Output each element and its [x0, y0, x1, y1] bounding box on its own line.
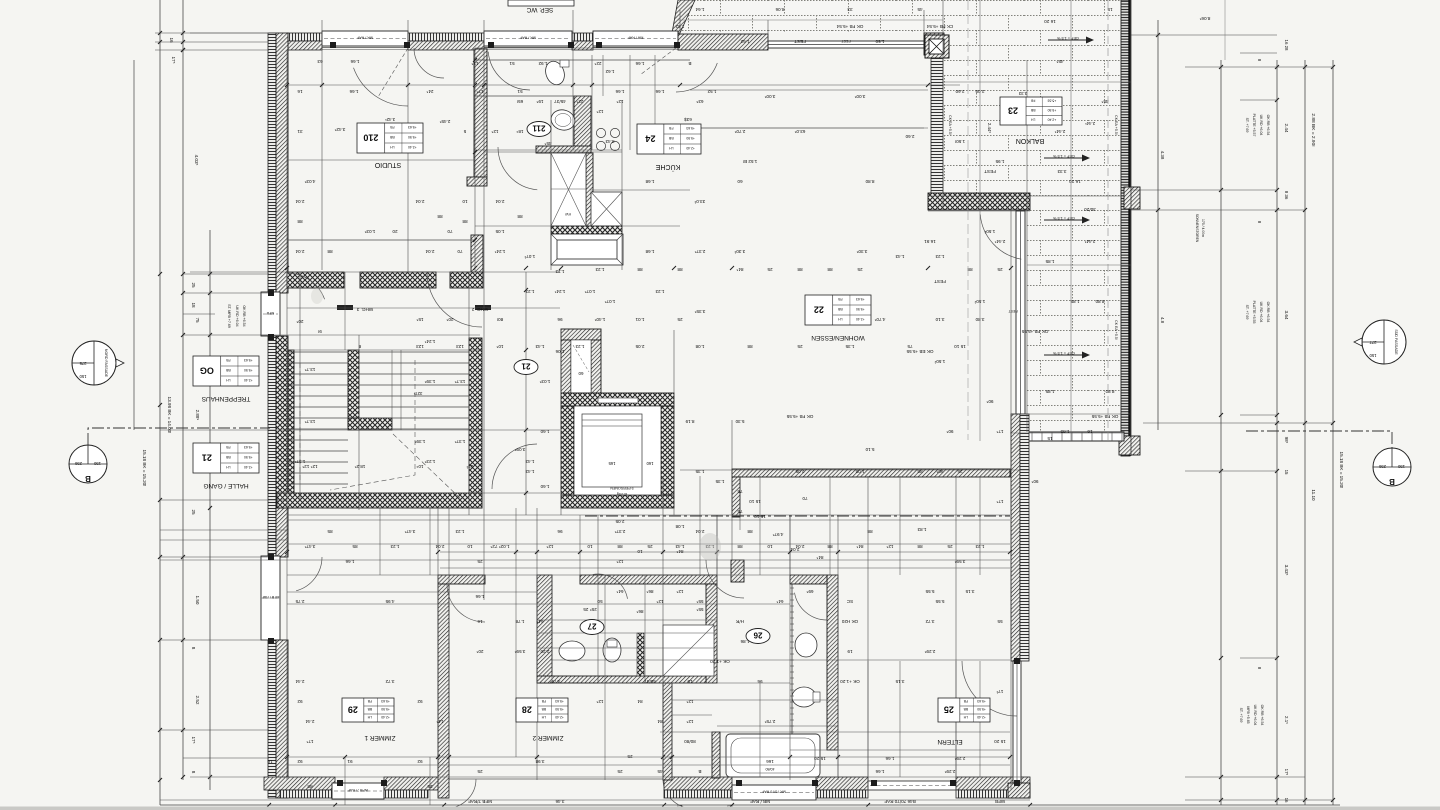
- svg-text:25: 25: [997, 267, 1003, 272]
- svg-text:NORD FASSADE: NORD FASSADE: [104, 349, 108, 378]
- svg-text:2.75⁵: 2.75⁵: [764, 719, 775, 724]
- svg-text:3.47⁵: 3.47⁵: [404, 529, 415, 534]
- svg-text:2.44: 2.44: [1284, 124, 1289, 133]
- balcony slope arrows: [1048, 36, 1094, 44]
- right wall bottom corner: [1008, 783, 1030, 798]
- svg-text:PLATTE +5.55: PLATTE +5.55: [1252, 301, 1256, 324]
- svg-text:150: 150: [1397, 464, 1405, 469]
- svg-text:4.97⁵: 4.97⁵: [772, 532, 783, 537]
- stair spine foot: [348, 418, 392, 430]
- svg-text:1.23: 1.23: [525, 289, 534, 294]
- svg-text:92: 92: [297, 699, 303, 704]
- svg-text:MFB 7/RAF: MFB 7/RAF: [468, 799, 492, 804]
- svg-text:CK EA +5.5!: CK EA +5.5!: [1114, 115, 1118, 135]
- svg-text:3.64: 3.64: [1284, 311, 1289, 320]
- svg-text:2.04: 2.04: [295, 249, 304, 254]
- svg-text:1.85: 1.85: [1045, 389, 1054, 394]
- svg-text:1.23: 1.23: [575, 344, 584, 349]
- svg-text:84⁵: 84⁵: [856, 544, 863, 549]
- kitchen stove: [596, 128, 619, 150]
- chain ticks x475: [473, 58, 477, 62]
- svg-text:1.24⁵: 1.24⁵: [424, 339, 435, 344]
- balcony glazing (FEST) top, living room: [768, 41, 924, 48]
- svg-text:84⁵: 84⁵: [736, 267, 743, 272]
- svg-text:86⁵: 86⁵: [646, 589, 653, 594]
- whg3 hall door arc: [287, 273, 325, 299]
- window left W1: [261, 292, 280, 336]
- svg-text:OG: OG: [200, 366, 214, 376]
- right dim line A: [1157, 20, 1159, 430]
- pier at balcony wall: [924, 33, 944, 55]
- svg-text:17⁵: 17⁵: [476, 89, 483, 94]
- svg-text:60: 60: [737, 179, 743, 184]
- eltern stub: [731, 560, 744, 582]
- right dim line E: [1332, 60, 1334, 805]
- svg-text:88: 88: [917, 544, 923, 549]
- window left W2: [261, 556, 280, 640]
- svg-text:1.50²: 1.50²: [984, 229, 995, 234]
- kitchen island: [591, 192, 622, 226]
- svg-text:3.33: 3.33: [1057, 169, 1066, 174]
- svg-text:ST. MFB +7.69: ST. MFB +7.69: [227, 304, 231, 328]
- svg-text:92: 92: [297, 759, 303, 764]
- svg-text:+5.63: +5.63: [1048, 99, 1057, 103]
- svg-text:BB: BB: [837, 307, 842, 311]
- svg-text:3.47⁵: 3.47⁵: [304, 544, 315, 549]
- svg-text:85: 85: [352, 544, 358, 549]
- svg-text:17³: 17³: [996, 689, 1003, 694]
- room table 23 BALKON: [1000, 97, 1062, 125]
- svg-text:80/80: 80/80: [684, 739, 696, 744]
- room table 210 STUDIO: [357, 123, 423, 153]
- svg-text:91: 91: [347, 759, 353, 764]
- svg-text:1.66: 1.66: [655, 89, 664, 94]
- section circle B left: [69, 445, 107, 483]
- eltern door arc: [706, 560, 744, 598]
- svg-text:16: 16: [1087, 429, 1093, 434]
- svg-text:15 10: 15 10: [754, 514, 766, 519]
- svg-text:2.20: 2.20: [540, 649, 549, 654]
- svg-text:25: 25: [857, 267, 863, 272]
- svg-text:1.60: 1.60: [540, 484, 549, 489]
- svg-text:25: 25: [797, 344, 803, 349]
- svg-text:327⁵: 327⁵: [413, 391, 422, 396]
- svg-text:84: 84: [657, 719, 663, 724]
- svg-text:OK H20: OK H20: [841, 619, 858, 624]
- svg-text:FB: FB: [225, 445, 230, 449]
- kitchen door arc from hall: [676, 63, 717, 92]
- svg-text:12³: 12³: [466, 464, 473, 469]
- svg-text:4.70⁵: 4.70⁵: [874, 317, 885, 322]
- zimmer1 entry arc: [447, 584, 485, 622]
- sepwc toilet: [542, 59, 567, 88]
- wall between zimmer2 and eltern: [663, 683, 672, 780]
- svg-text:1.43: 1.43: [895, 254, 904, 259]
- eltern balcony door arc: [962, 661, 1017, 716]
- svg-text:2.04: 2.04: [425, 249, 434, 254]
- oval badge 21: [514, 360, 538, 375]
- stair dashed walk line: [300, 360, 415, 490]
- oval badge 211: [527, 122, 551, 137]
- svg-text:12⁵: 12⁵: [886, 544, 893, 549]
- svg-text:1.50: 1.50: [195, 596, 200, 605]
- svg-text:1.85: 1.85: [1045, 259, 1054, 264]
- svg-text:1.66: 1.66: [875, 769, 884, 774]
- svg-text:BB: BB: [225, 368, 230, 372]
- svg-text:8.06: 8.06: [775, 7, 784, 12]
- svg-text:2.44⁵: 2.44⁵: [987, 123, 992, 134]
- window end marks: [330, 42, 336, 48]
- svg-text:1.39⁵: 1.39⁵: [414, 439, 425, 444]
- bath1 shower: [663, 625, 714, 676]
- svg-text:1.68: 1.68: [645, 249, 654, 254]
- balcony railing right: [1121, 0, 1130, 456]
- svg-text:150: 150: [1369, 353, 1377, 358]
- svg-text:1.03⁵: 1.03⁵: [364, 229, 375, 234]
- svg-text:OK FB +5.55: OK FB +5.55: [1091, 414, 1118, 419]
- svg-text:GEF = 1.5 %: GEF = 1.5 %: [1052, 351, 1074, 355]
- svg-text:275: 275: [79, 361, 87, 366]
- svg-text:75: 75: [737, 509, 743, 514]
- svg-text:277: 277: [1369, 340, 1377, 345]
- zimmer1 door arc: [296, 557, 322, 591]
- svg-text:5.55: 5.55: [925, 589, 934, 594]
- balcony extension lines: [979, 0, 981, 441]
- svg-text:1.66: 1.66: [345, 559, 354, 564]
- svg-text:2.29⁵: 2.29⁵: [954, 756, 965, 761]
- svg-text:88: 88: [307, 784, 313, 789]
- svg-text:2.29⁵: 2.29⁵: [924, 649, 935, 654]
- svg-text:2.75: 2.75: [295, 599, 304, 604]
- svg-text:MFB: MFB: [266, 311, 274, 315]
- svg-text:LH: LH: [1031, 117, 1036, 121]
- bath2 tiled wall line: [791, 584, 793, 750]
- section axis dash-dot left: [88, 428, 270, 445]
- bottom exterior wall seg 1: [264, 777, 335, 790]
- svg-text:88: 88: [867, 529, 873, 534]
- svg-text:1.08: 1.08: [695, 344, 704, 349]
- svg-text:16 20: 16 20: [1069, 179, 1081, 184]
- bath2 door arc: [795, 593, 828, 620]
- svg-text:1.08: 1.08: [675, 524, 684, 529]
- svg-text:15 10: 15 10: [954, 344, 966, 349]
- svg-text:25: 25: [627, 754, 633, 759]
- svg-text:17⁵: 17⁵: [171, 56, 176, 63]
- svg-text:1.23: 1.23: [975, 544, 984, 549]
- svg-text:17⁵: 17⁵: [191, 736, 196, 743]
- svg-text:3.59⁵: 3.59⁵: [954, 559, 965, 564]
- svg-text:25⁵ 25: 25⁵ 25: [583, 607, 597, 612]
- svg-text:SC: SC: [846, 599, 853, 604]
- svg-text:OK FB +5.54: OK FB +5.54: [836, 24, 863, 29]
- svg-text:+5.50: +5.50: [408, 135, 417, 139]
- svg-text:19: 19: [687, 679, 693, 684]
- svg-text:3.59⁵: 3.59⁵: [514, 649, 525, 654]
- svg-text:SONNENSTOREN: SONNENSTOREN: [1195, 214, 1199, 243]
- svg-text:88: 88: [462, 219, 468, 224]
- window sill lines top wall: [322, 46, 408, 48]
- svg-text:13.7⁵: 13.7⁵: [304, 419, 315, 424]
- svg-text:3.30³: 3.30³: [734, 249, 745, 254]
- svg-text:GEF = 1.5 %: GEF = 1.5 %: [1052, 216, 1074, 220]
- svg-text:75: 75: [907, 344, 913, 349]
- svg-text:96: 96: [557, 317, 563, 322]
- svg-text:5.10: 5.10: [865, 447, 874, 452]
- kitchen wall cap: [536, 146, 591, 153]
- svg-text:88: 88: [737, 544, 743, 549]
- svg-text:5.55: 5.55: [935, 599, 944, 604]
- svg-text:B46 70/70 RAF: B46 70/70 RAF: [884, 799, 916, 804]
- hall 21 door arc: [492, 444, 537, 489]
- svg-text:90⁵: 90⁵: [936, 469, 943, 474]
- svg-text:+5.50: +5.50: [1048, 108, 1057, 112]
- svg-text:MFB +5.65: MFB +5.65: [1246, 706, 1250, 723]
- svg-text:1.01: 1.01: [635, 317, 644, 322]
- svg-text:4.79⁵: 4.79⁵: [549, 679, 560, 684]
- svg-text:5.30: 5.30: [735, 419, 744, 424]
- svg-text:FB: FB: [541, 699, 546, 703]
- svg-text:GEF = 1.5 %: GEF = 1.5 %: [1056, 36, 1078, 40]
- balcony left glazing strip: [931, 58, 943, 196]
- svg-text:+2.40: +2.40: [856, 317, 865, 321]
- top-left dim lines: [155, 32, 269, 34]
- svg-text:3.42⁵: 3.42⁵: [385, 117, 395, 122]
- svg-text:11.10: 11.10: [1311, 489, 1316, 501]
- svg-text:22⁵: 22⁵: [576, 99, 583, 104]
- svg-text:1.43: 1.43: [675, 544, 684, 549]
- svg-text:2.05: 2.05: [635, 344, 644, 349]
- svg-text:20: 20: [392, 229, 398, 234]
- svg-text:88: 88: [617, 544, 623, 549]
- svg-text:2.52: 2.52: [195, 696, 200, 705]
- svg-text:CK EA +5.5!: CK EA +5.5!: [948, 115, 952, 135]
- window top W3: [593, 31, 678, 46]
- svg-text:LH: LH: [226, 465, 231, 469]
- bath1 toilet: [603, 638, 621, 662]
- svg-text:OK RB +6.54: OK RB +6.54: [1266, 302, 1270, 323]
- svg-text:80!: 80!: [497, 317, 503, 322]
- svg-text:+2.40: +2.40: [977, 715, 986, 719]
- svg-text:21: 21: [202, 453, 212, 463]
- svg-text:18.2⁵: 18.2⁵: [354, 464, 365, 469]
- svg-text:8: 8: [358, 344, 361, 349]
- svg-text:2.04: 2.04: [495, 199, 504, 204]
- svg-text:+5.50: +5.50: [244, 455, 253, 459]
- bath2 top wall: [790, 575, 827, 584]
- svg-text:+2.40: +2.40: [686, 146, 695, 150]
- left exterior wall seg 1 insulation: [268, 33, 276, 293]
- svg-text:+2.40: +2.40: [381, 715, 390, 719]
- svg-text:15: 15: [1284, 470, 1289, 475]
- svg-text:3.09⁵: 3.09⁵: [514, 447, 525, 452]
- svg-text:51: 51: [509, 61, 515, 66]
- svg-text:1.24⁵: 1.24⁵: [554, 289, 565, 294]
- svg-text:16: 16: [297, 89, 303, 94]
- svg-text:1.23: 1.23: [595, 267, 604, 272]
- WHG divider crosshatch band seg2: [360, 272, 436, 288]
- left exterior wall seg 1: [276, 33, 288, 293]
- svg-text:90⁵: 90⁵: [986, 399, 993, 404]
- svg-text:25: 25: [647, 544, 653, 549]
- svg-text:2.88 BK = 2.90!: 2.88 BK = 2.90!: [1310, 113, 1316, 146]
- svg-text:1.62: 1.62: [605, 69, 614, 74]
- svg-text:+5.63: +5.63: [977, 699, 986, 703]
- bottom exterior wall seg 3: [664, 777, 732, 790]
- svg-text:STUDIO: STUDIO: [374, 161, 401, 168]
- svg-text:9!: 9!: [318, 329, 322, 334]
- svg-text:16: 16: [1284, 798, 1289, 803]
- svg-text:2.04: 2.04: [435, 544, 444, 549]
- top exterior wall seg 1: [269, 33, 322, 41]
- svg-text:30/20: 30/20: [1084, 207, 1096, 212]
- svg-text:17⁵: 17⁵: [306, 739, 313, 744]
- svg-text:25: 25: [944, 705, 954, 715]
- svg-text:5: 5: [463, 129, 466, 134]
- stair bottom crosshatch wall: [277, 493, 482, 508]
- svg-text:1.66: 1.66: [475, 594, 484, 599]
- svg-text:25: 25: [191, 282, 196, 288]
- svg-text:3.15: 3.15: [895, 679, 904, 684]
- svg-text:10: 10: [767, 544, 773, 549]
- svg-text:LH: LH: [838, 317, 843, 321]
- svg-text:8.80: 8.80: [865, 179, 874, 184]
- svg-text:1.83: 1.83: [917, 527, 926, 532]
- svg-text:+5.63: +5.63: [408, 125, 417, 129]
- svg-text:WHG. 2: WHG. 2: [471, 307, 488, 312]
- svg-text:10: 10: [587, 544, 593, 549]
- bottom exterior wall seg 2: [384, 777, 444, 790]
- svg-text:22: 22: [814, 305, 824, 315]
- stair spine wall: [348, 350, 359, 426]
- svg-text:1.92: 1.92: [538, 61, 547, 66]
- svg-text:8.80: 8.80: [1095, 299, 1104, 304]
- svg-text:45: 45: [657, 769, 663, 774]
- svg-text:16: 16: [477, 619, 483, 624]
- svg-text:1.39⁵: 1.39⁵: [424, 379, 435, 384]
- svg-text:8: 8: [191, 771, 196, 774]
- svg-text:B: B: [688, 61, 691, 66]
- svg-text:88: 88: [827, 267, 833, 272]
- bath2 right wall: [827, 575, 838, 750]
- svg-text:PLATTE +5.57: PLATTE +5.57: [1252, 114, 1256, 137]
- svg-text:MFB / RAF: MFB / RAF: [261, 595, 280, 599]
- WHG2 door leaf: [475, 305, 491, 310]
- svg-text:175 / 4.00m: 175 / 4.00m: [1201, 219, 1205, 237]
- svg-text:LH: LH: [669, 146, 674, 150]
- bath1 top wall: [580, 575, 717, 584]
- left axis line: [133, 60, 135, 430]
- balcony railing post mid: [1124, 187, 1140, 209]
- svg-text:25: 25: [947, 544, 953, 549]
- right dim line B: [1220, 60, 1222, 805]
- svg-text:2.1⁵: 2.1⁵: [1284, 716, 1289, 724]
- svg-text:12⁵: 12⁵: [676, 589, 683, 594]
- bottom terrace door opening: [444, 778, 664, 780]
- balcony bottom slab edge: [1027, 432, 1124, 441]
- svg-text:LH: LH: [367, 715, 372, 719]
- svg-text:88: 88: [747, 344, 753, 349]
- svg-text:3.10: 3.10: [935, 317, 944, 322]
- svg-text:16 28: 16 28: [1284, 40, 1289, 52]
- svg-text:HALLE / GANG: HALLE / GANG: [203, 482, 248, 489]
- svg-text:SÜD FASSADE: SÜD FASSADE: [1394, 329, 1398, 355]
- svg-text:3.42⁵: 3.42⁵: [334, 127, 345, 132]
- svg-text:3.43⁵: 3.43⁵: [1284, 565, 1289, 576]
- svg-text:KW: KW: [564, 212, 570, 216]
- svg-text:OK +1.20: OK +1.20: [840, 679, 860, 684]
- svg-text:1.50²: 1.50²: [934, 359, 945, 364]
- svg-text:15.18 BK = 15.20!: 15.18 BK = 15.20!: [142, 450, 147, 487]
- balcony tile floor right lower: [1027, 196, 1125, 433]
- svg-text:1.07⁵: 1.07⁵: [604, 299, 615, 304]
- svg-text:FB: FB: [389, 125, 394, 129]
- svg-text:16: 16: [267, 759, 273, 764]
- svg-text:FEST: FEST: [841, 39, 851, 43]
- left exterior wall seg 2 lower: [276, 508, 288, 557]
- svg-text:8 36: 8 36: [1284, 191, 1289, 200]
- svg-text:75: 75: [195, 317, 200, 323]
- svg-text:33.0³: 33.0³: [694, 199, 705, 204]
- svg-text:9 PERSONEN: 9 PERSONEN: [610, 486, 634, 490]
- svg-text:19⁵: 19⁵: [536, 99, 543, 104]
- svg-text:88: 88: [827, 544, 833, 549]
- svg-text:15: 15: [1047, 436, 1053, 441]
- svg-text:BB: BB: [225, 455, 230, 459]
- svg-text:3.72: 3.72: [385, 679, 394, 684]
- svg-text:40/80: 40/80: [766, 767, 775, 771]
- svg-text:90⁵: 90⁵: [946, 429, 953, 434]
- svg-text:1.66: 1.66: [349, 89, 358, 94]
- scan smudges: [699, 533, 721, 561]
- svg-text:10⁴: 10⁴: [416, 464, 423, 469]
- svg-text:88: 88: [517, 214, 523, 219]
- svg-text:1.02⁵ 72⁵: 1.02⁵ 72⁵: [490, 544, 509, 549]
- svg-text:2.60: 2.60: [905, 134, 914, 139]
- bathtub: [726, 734, 820, 777]
- svg-text:SEP. WC: SEP. WC: [526, 6, 553, 13]
- svg-text:92: 92: [417, 699, 423, 704]
- svg-text:23: 23: [1008, 106, 1018, 116]
- duct above elevator: [561, 329, 601, 340]
- svg-text:16 20: 16 20: [1044, 19, 1056, 24]
- bath1 right wall: [706, 584, 717, 683]
- window top W1: [322, 31, 408, 46]
- kitchen counter: [551, 153, 586, 226]
- svg-text:CK EA +5.5!: CK EA +5.5!: [1114, 320, 1118, 340]
- left exterior wall seg 3 insulation: [268, 640, 276, 798]
- svg-text:88: 88: [327, 249, 333, 254]
- svg-text:14⁵: 14⁵: [436, 719, 443, 724]
- sep wc table cut at top: [508, 0, 574, 6]
- svg-text:+5.50: +5.50: [244, 368, 253, 372]
- svg-text:12⁵: 12⁵: [656, 599, 663, 604]
- zimmer1 right wall cap: [438, 575, 485, 584]
- oval badge 26: [746, 629, 770, 644]
- svg-text:165: 165: [608, 461, 616, 466]
- top right guide lines: [1130, 0, 1132, 456]
- svg-text:ST. +7.69: ST. +7.69: [1245, 118, 1249, 133]
- svg-text:88: 88: [797, 267, 803, 272]
- elevator shaft walls: [561, 393, 674, 406]
- svg-text:1.78: 1.78: [515, 619, 524, 624]
- svg-text:17⁵: 17⁵: [471, 61, 478, 66]
- crosshatch wall below balcony B: [928, 193, 1030, 210]
- svg-text:3.72: 3.72: [925, 619, 934, 624]
- svg-text:2.44⁵: 2.44⁵: [1084, 239, 1095, 244]
- svg-text:1.66: 1.66: [635, 61, 644, 66]
- bath2 toilet: [792, 687, 816, 707]
- svg-text:+2.40: +2.40: [408, 145, 417, 149]
